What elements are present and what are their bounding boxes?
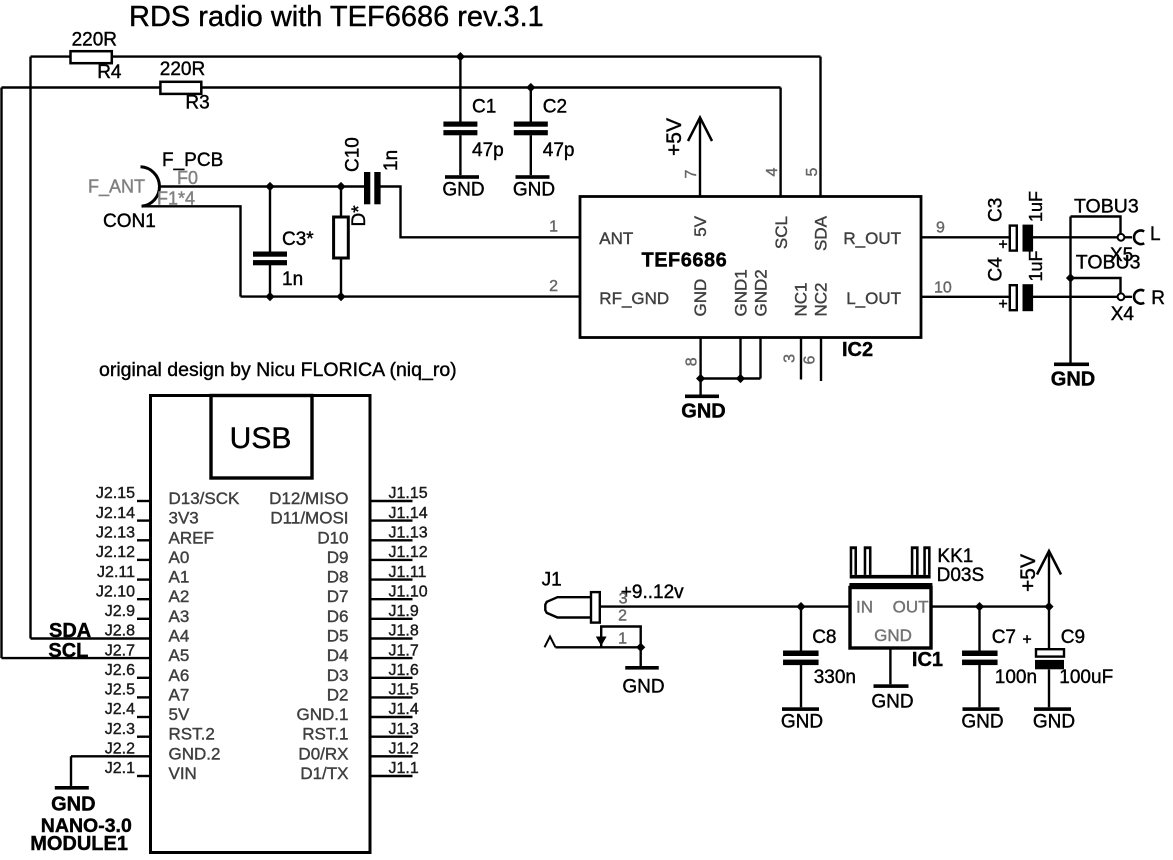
- svg-text:330n: 330n: [814, 667, 856, 688]
- svg-text:2: 2: [549, 278, 558, 295]
- svg-text:GND: GND: [781, 712, 823, 733]
- svg-text:SDA: SDA: [812, 215, 831, 251]
- svg-text:original design by Nicu FLORIC: original design by Nicu FLORICA (niq_ro): [99, 359, 457, 381]
- svg-text:ANT: ANT: [599, 229, 633, 248]
- svg-text:J1.3: J1.3: [389, 721, 419, 738]
- svg-text:L: L: [1150, 224, 1161, 245]
- svg-text:D2: D2: [327, 685, 349, 704]
- svg-text:IC2: IC2: [842, 339, 873, 361]
- svg-text:GND2: GND2: [752, 269, 771, 316]
- svg-text:1n: 1n: [282, 269, 303, 290]
- svg-text:R: R: [1151, 288, 1165, 309]
- svg-text:C9: C9: [1061, 627, 1085, 648]
- svg-text:A6: A6: [169, 666, 190, 685]
- svg-text:A4: A4: [169, 627, 190, 646]
- svg-text:NC1: NC1: [792, 282, 811, 316]
- svg-text:TEF6686: TEF6686: [642, 250, 728, 272]
- svg-text:10: 10: [934, 280, 952, 297]
- svg-text:GND1: GND1: [732, 269, 751, 316]
- svg-text:RDS radio with TEF6686 rev.3.1: RDS radio with TEF6686 rev.3.1: [129, 1, 544, 33]
- svg-text:IC1: IC1: [912, 649, 943, 671]
- svg-text:1: 1: [618, 631, 627, 648]
- svg-text:GND: GND: [1051, 369, 1095, 391]
- svg-text:SCL: SCL: [772, 216, 791, 249]
- svg-text:J1.4: J1.4: [389, 701, 419, 718]
- svg-text:R4: R4: [97, 62, 122, 83]
- svg-text:J1.6: J1.6: [389, 662, 419, 679]
- svg-text:+5V: +5V: [663, 118, 686, 156]
- svg-text:F1*4: F1*4: [157, 189, 195, 209]
- svg-text:J2.8: J2.8: [105, 623, 135, 640]
- svg-text:D10: D10: [317, 528, 348, 547]
- svg-text:220R: 220R: [160, 59, 205, 80]
- svg-text:J2.7: J2.7: [105, 642, 135, 659]
- svg-text:X5: X5: [1110, 245, 1133, 266]
- svg-text:GND: GND: [513, 180, 555, 201]
- svg-text:IN: IN: [856, 598, 873, 617]
- svg-text:1uF: 1uF: [1026, 250, 1046, 281]
- svg-text:3: 3: [782, 354, 799, 363]
- svg-text:5V: 5V: [169, 705, 190, 724]
- svg-text:J2.2: J2.2: [105, 741, 135, 758]
- svg-text:GND: GND: [51, 794, 95, 816]
- svg-text:L_OUT: L_OUT: [846, 289, 901, 308]
- svg-text:+: +: [1022, 632, 1031, 649]
- svg-text:+: +: [998, 296, 1007, 313]
- svg-text:C7: C7: [992, 627, 1016, 648]
- svg-text:F0: F0: [177, 168, 198, 188]
- svg-text:C2: C2: [543, 97, 567, 118]
- svg-text:+9..12v: +9..12v: [621, 582, 684, 603]
- svg-text:R_OUT: R_OUT: [843, 229, 901, 248]
- svg-text:D*: D*: [349, 205, 370, 227]
- svg-text:J2.15: J2.15: [96, 485, 135, 502]
- svg-text:100n: 100n: [995, 667, 1037, 688]
- svg-text:J1.1: J1.1: [389, 760, 419, 777]
- svg-text:GND: GND: [622, 677, 664, 698]
- svg-text:47p: 47p: [543, 140, 575, 161]
- svg-text:J1.15: J1.15: [389, 485, 428, 502]
- svg-text:RF_GND: RF_GND: [599, 289, 669, 308]
- svg-text:J2.14: J2.14: [96, 505, 135, 522]
- svg-text:C8: C8: [812, 627, 836, 648]
- svg-text:9: 9: [936, 220, 945, 237]
- svg-text:GND.2: GND.2: [169, 744, 221, 763]
- svg-text:AREF: AREF: [169, 528, 214, 547]
- svg-text:6: 6: [802, 356, 819, 365]
- svg-text:J1: J1: [542, 570, 562, 591]
- svg-text:A3: A3: [169, 607, 190, 626]
- svg-text:J1.13: J1.13: [389, 525, 428, 542]
- svg-text:1: 1: [549, 219, 558, 236]
- svg-text:J1.11: J1.11: [389, 564, 427, 581]
- svg-text:3V3: 3V3: [169, 509, 199, 528]
- svg-text:C3*: C3*: [282, 229, 314, 250]
- svg-text:D6: D6: [327, 607, 349, 626]
- svg-text:GND: GND: [691, 279, 710, 317]
- svg-text:7: 7: [683, 170, 700, 179]
- svg-text:J1.12: J1.12: [389, 544, 428, 561]
- svg-text:3: 3: [619, 591, 628, 608]
- svg-text:C10: C10: [343, 137, 364, 172]
- svg-text:D5: D5: [327, 627, 349, 646]
- svg-text:NC2: NC2: [812, 282, 831, 316]
- svg-text:J2.10: J2.10: [96, 583, 135, 600]
- svg-text:D8: D8: [327, 568, 349, 587]
- svg-text:J2.3: J2.3: [105, 721, 135, 738]
- svg-text:VIN: VIN: [169, 764, 197, 783]
- svg-text:J1.5: J1.5: [389, 682, 419, 699]
- svg-text:J1.9: J1.9: [389, 603, 419, 620]
- svg-text:5: 5: [804, 168, 821, 177]
- svg-text:KK1: KK1: [937, 546, 973, 567]
- svg-text:J1.2: J1.2: [389, 741, 419, 758]
- svg-text:D0/RX: D0/RX: [298, 744, 348, 763]
- svg-text:SCL: SCL: [48, 640, 88, 662]
- svg-text:+5V: +5V: [1017, 554, 1040, 592]
- svg-text:GND: GND: [681, 401, 725, 423]
- svg-text:GND: GND: [1033, 712, 1075, 733]
- svg-text:D1/TX: D1/TX: [300, 764, 348, 783]
- svg-text:D12/MISO: D12/MISO: [269, 489, 348, 508]
- svg-text:A2: A2: [169, 587, 190, 606]
- svg-text:J2.6: J2.6: [105, 662, 135, 679]
- svg-text:GND: GND: [961, 712, 1003, 733]
- svg-text:CON1: CON1: [103, 211, 156, 232]
- svg-text:GND: GND: [871, 692, 913, 713]
- svg-text:D9: D9: [327, 548, 349, 567]
- svg-text:J2.11: J2.11: [97, 564, 135, 581]
- svg-text:47p: 47p: [472, 140, 504, 161]
- svg-text:A5: A5: [169, 646, 190, 665]
- svg-text:C4: C4: [986, 257, 1007, 282]
- svg-text:8: 8: [683, 357, 700, 366]
- svg-text:100uF: 100uF: [1059, 667, 1113, 688]
- svg-text:A7: A7: [169, 685, 190, 704]
- svg-text:+: +: [998, 237, 1007, 254]
- svg-text:D4: D4: [327, 646, 349, 665]
- svg-text:J1.10: J1.10: [389, 583, 428, 600]
- svg-text:A1: A1: [169, 568, 190, 587]
- svg-text:J2.9: J2.9: [105, 603, 135, 620]
- svg-text:D13/SCK: D13/SCK: [169, 489, 241, 508]
- svg-text:RST.2: RST.2: [169, 725, 215, 744]
- svg-text:220R: 220R: [72, 30, 117, 51]
- svg-text:USB: USB: [230, 422, 292, 455]
- svg-text:D03S: D03S: [937, 565, 985, 586]
- svg-text:R3: R3: [185, 93, 209, 114]
- svg-text:J1.8: J1.8: [389, 623, 419, 640]
- svg-text:1n: 1n: [381, 150, 402, 171]
- svg-text:C3: C3: [986, 198, 1007, 222]
- svg-text:J2.5: J2.5: [105, 682, 135, 699]
- svg-text:MODULE1: MODULE1: [30, 833, 128, 855]
- svg-text:J2.13: J2.13: [96, 525, 135, 542]
- svg-text:D7: D7: [327, 587, 349, 606]
- svg-text:OUT: OUT: [893, 598, 929, 617]
- svg-text:J1.7: J1.7: [389, 642, 419, 659]
- svg-text:GND.1: GND.1: [297, 705, 349, 724]
- svg-text:SDA: SDA: [49, 620, 91, 642]
- svg-text:J2.1: J2.1: [105, 760, 135, 777]
- svg-text:RST.1: RST.1: [302, 725, 348, 744]
- svg-text:GND: GND: [442, 180, 484, 201]
- svg-text:C1: C1: [472, 97, 496, 118]
- svg-text:J1.14: J1.14: [389, 505, 428, 522]
- svg-text:5V: 5V: [691, 215, 710, 236]
- svg-text:D3: D3: [327, 666, 349, 685]
- svg-text:X4: X4: [1111, 304, 1135, 325]
- svg-text:1uF: 1uF: [1026, 191, 1046, 222]
- svg-text:2: 2: [618, 608, 627, 625]
- svg-text:4: 4: [764, 168, 781, 177]
- svg-text:J2.12: J2.12: [96, 544, 135, 561]
- svg-text:A0: A0: [169, 548, 190, 567]
- svg-text:J2.4: J2.4: [105, 701, 135, 718]
- svg-text:F_ANT: F_ANT: [88, 177, 145, 198]
- svg-text:D11/MOSI: D11/MOSI: [270, 509, 348, 528]
- svg-text:GND: GND: [874, 626, 912, 645]
- svg-text:TOBU3: TOBU3: [1074, 196, 1139, 218]
